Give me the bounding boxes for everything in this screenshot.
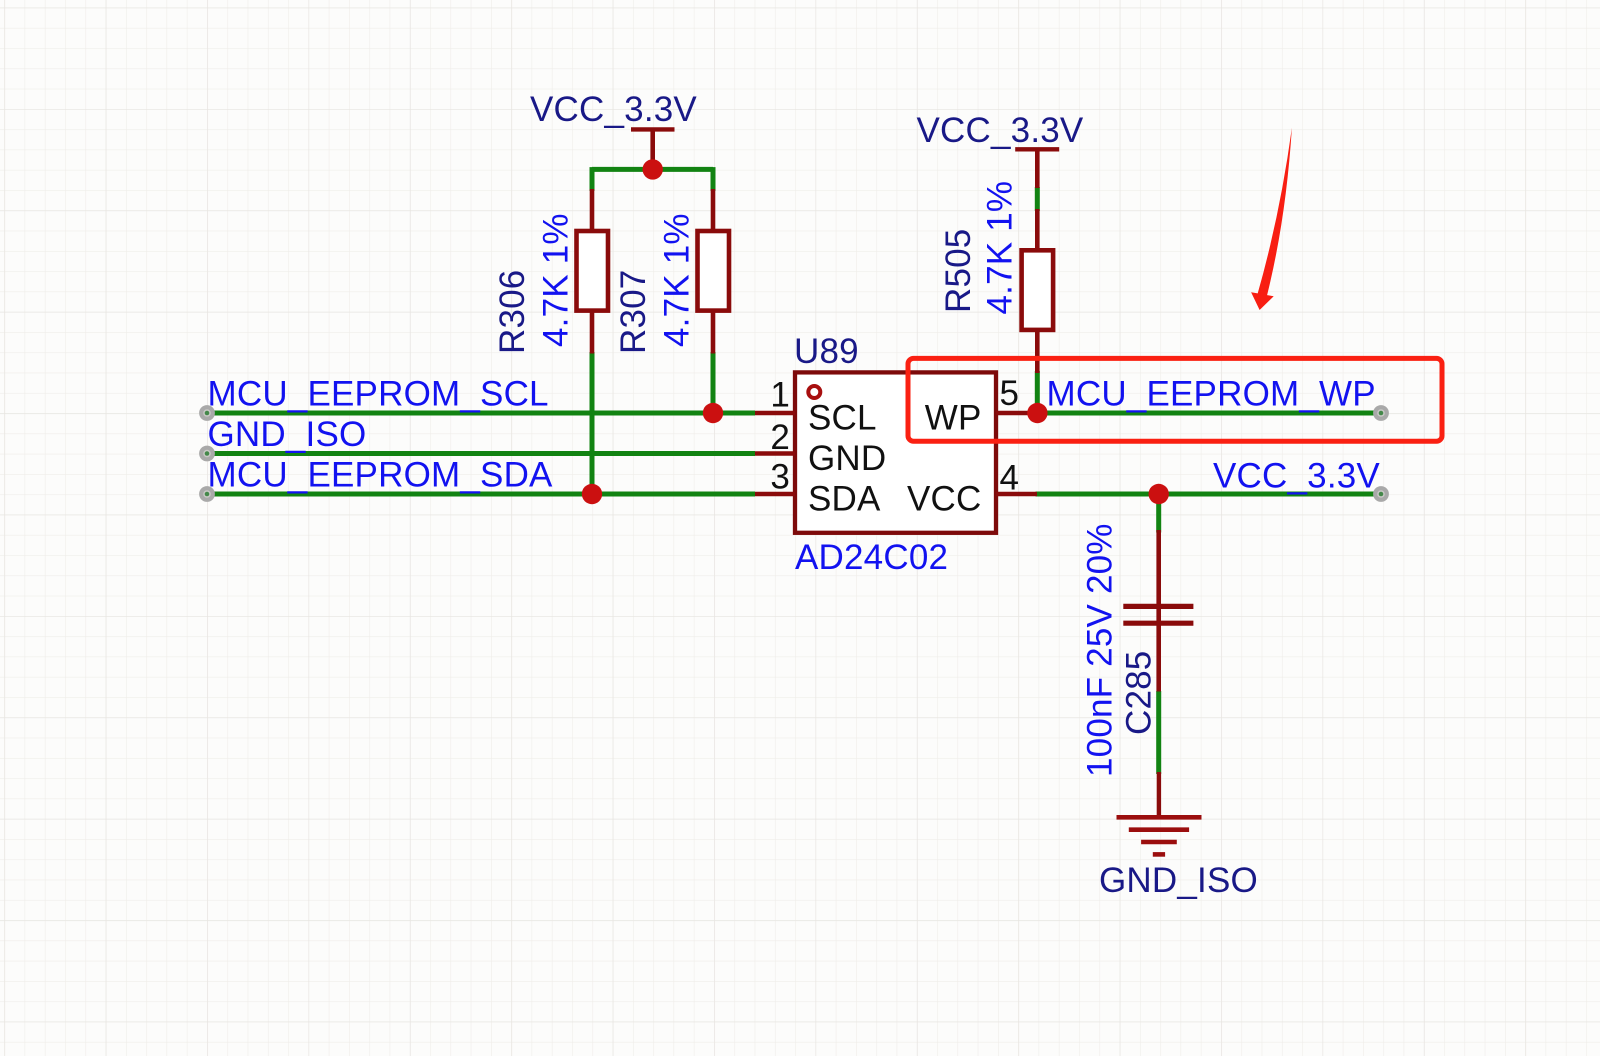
op IC U89 body bbox=[795, 372, 996, 532]
annotation red rectangle bbox=[908, 358, 1442, 441]
wire R306 top bbox=[590, 167, 595, 191]
ground GND_ISO bbox=[1117, 772, 1202, 854]
svg-text:VCC: VCC bbox=[907, 480, 982, 519]
svg-text:GND_ISO: GND_ISO bbox=[1099, 861, 1258, 900]
wire R505 bottom to WP bbox=[1035, 371, 1040, 413]
wire MCU_EEPROM_SDA horizontal bbox=[207, 492, 755, 497]
pin number 3 bbox=[770, 458, 790, 497]
pin endpoint GND_ISO bbox=[199, 446, 215, 462]
junction R306/SDA bbox=[582, 484, 602, 504]
svg-text:VCC_3.3V: VCC_3.3V bbox=[1213, 457, 1380, 496]
svg-text:GND: GND bbox=[808, 439, 886, 478]
svg-text:R306: R306 bbox=[493, 270, 532, 354]
net label GND_ISO bottom bbox=[1099, 861, 1258, 900]
pin endpoint SDA bbox=[199, 486, 215, 502]
pin 4 stub bbox=[996, 492, 1037, 496]
svg-text:4.7K 1%: 4.7K 1% bbox=[658, 213, 697, 347]
wire R505 upper bbox=[1035, 187, 1040, 211]
wire C285 bottom bbox=[1156, 691, 1161, 774]
wire C285 top bbox=[1156, 494, 1161, 533]
value 100nF 25V 20% bbox=[1081, 523, 1120, 777]
svg-text:R307: R307 bbox=[614, 270, 653, 354]
pin name WP bbox=[925, 399, 982, 438]
label R307 bbox=[614, 270, 653, 354]
resistor R307 bbox=[698, 189, 730, 354]
resistor R306 bbox=[577, 189, 609, 354]
svg-text:AD24C02: AD24C02 bbox=[795, 538, 948, 577]
capacitor C285 bbox=[1123, 530, 1193, 692]
value 4.7K 1% (R307) bbox=[658, 213, 697, 347]
svg-text:C285: C285 bbox=[1120, 651, 1159, 735]
svg-text:MCU_EEPROM_WP: MCU_EEPROM_WP bbox=[1047, 375, 1376, 414]
power symbol VCC_3.3V left bbox=[631, 129, 675, 169]
net label GND_ISO bbox=[208, 415, 367, 454]
svg-text:4.7K 1%: 4.7K 1% bbox=[981, 181, 1020, 315]
wire GND_ISO horizontal bbox=[207, 451, 755, 456]
pin endpoint VCC right bbox=[1373, 486, 1389, 502]
svg-text:MCU_EEPROM_SDA: MCU_EEPROM_SDA bbox=[208, 456, 554, 495]
power symbol VCC_3.3V right bbox=[1015, 149, 1059, 188]
pin name VCC bbox=[907, 480, 982, 519]
junction VCC/C285 bbox=[1149, 484, 1169, 504]
svg-text:VCC_3.3V: VCC_3.3V bbox=[917, 111, 1084, 150]
svg-text:2: 2 bbox=[770, 418, 790, 457]
svg-text:MCU_EEPROM_SCL: MCU_EEPROM_SCL bbox=[208, 375, 549, 414]
svg-text:VCC_3.3V: VCC_3.3V bbox=[530, 90, 697, 129]
svg-text:WP: WP bbox=[925, 399, 982, 438]
pin name GND bbox=[808, 439, 886, 478]
svg-text:1: 1 bbox=[770, 376, 790, 415]
net label VCC_3.3V wire bbox=[1213, 457, 1380, 496]
wire R307 bottom to SCL bbox=[711, 352, 716, 413]
pin number 1 bbox=[770, 376, 790, 415]
svg-text:3: 3 bbox=[770, 458, 790, 497]
pin number 2 bbox=[770, 418, 790, 457]
net label MCU_EEPROM_SDA bbox=[208, 456, 554, 495]
label R306 bbox=[493, 270, 532, 354]
svg-text:U89: U89 bbox=[794, 332, 859, 371]
label R505 bbox=[939, 229, 978, 313]
pin 1 stub bbox=[755, 411, 795, 415]
wire VCC top bus bbox=[592, 167, 713, 172]
net label MCU_EEPROM_WP bbox=[1047, 375, 1376, 414]
junction R307/SCL bbox=[703, 403, 723, 423]
net label VCC_3.3V right power bbox=[917, 111, 1084, 150]
designator U89 bbox=[794, 332, 859, 371]
value 4.7K 1% (R306) bbox=[537, 213, 576, 347]
svg-text:5: 5 bbox=[1000, 374, 1020, 413]
annotation red arrow bbox=[1251, 128, 1292, 310]
junction pin5/R505 bbox=[1027, 403, 1047, 423]
svg-text:100nF 25V 20%: 100nF 25V 20% bbox=[1081, 523, 1120, 777]
pin 2 stub bbox=[755, 451, 795, 455]
wire R306 bottom to SDA bbox=[590, 352, 595, 494]
pin 3 stub bbox=[755, 492, 795, 496]
pin number 4 bbox=[1000, 459, 1020, 498]
svg-text:SDA: SDA bbox=[808, 480, 881, 519]
label C285 bbox=[1120, 651, 1159, 735]
svg-text:R505: R505 bbox=[939, 229, 978, 313]
pin endpoint SCL bbox=[199, 405, 215, 421]
svg-text:4.7K 1%: 4.7K 1% bbox=[537, 213, 576, 347]
svg-text:SCL: SCL bbox=[808, 399, 877, 438]
pin endpoint WP right bbox=[1373, 405, 1389, 421]
resistor R505 bbox=[1022, 209, 1054, 373]
part name AD24C02 bbox=[795, 538, 948, 577]
svg-text:4: 4 bbox=[1000, 459, 1020, 498]
value 4.7K 1% (R505) bbox=[981, 181, 1020, 315]
pin name SDA bbox=[808, 480, 881, 519]
pin name SCL bbox=[808, 399, 877, 438]
junction top bus bbox=[643, 159, 663, 179]
wire MCU_EEPROM_SCL horizontal bbox=[207, 411, 755, 416]
net label MCU_EEPROM_SCL bbox=[208, 375, 549, 414]
pin 5 stub bbox=[996, 411, 1037, 415]
svg-text:GND_ISO: GND_ISO bbox=[208, 415, 367, 454]
net label VCC_3.3V left bbox=[530, 90, 697, 129]
wire VCC_3.3V pin4 horizontal bbox=[1036, 492, 1382, 497]
pin number 5 bbox=[1000, 374, 1020, 413]
wire MCU_EEPROM_WP horizontal bbox=[1037, 411, 1381, 416]
pin1 indicator circle bbox=[808, 386, 820, 398]
wire R307 top bbox=[711, 167, 716, 191]
